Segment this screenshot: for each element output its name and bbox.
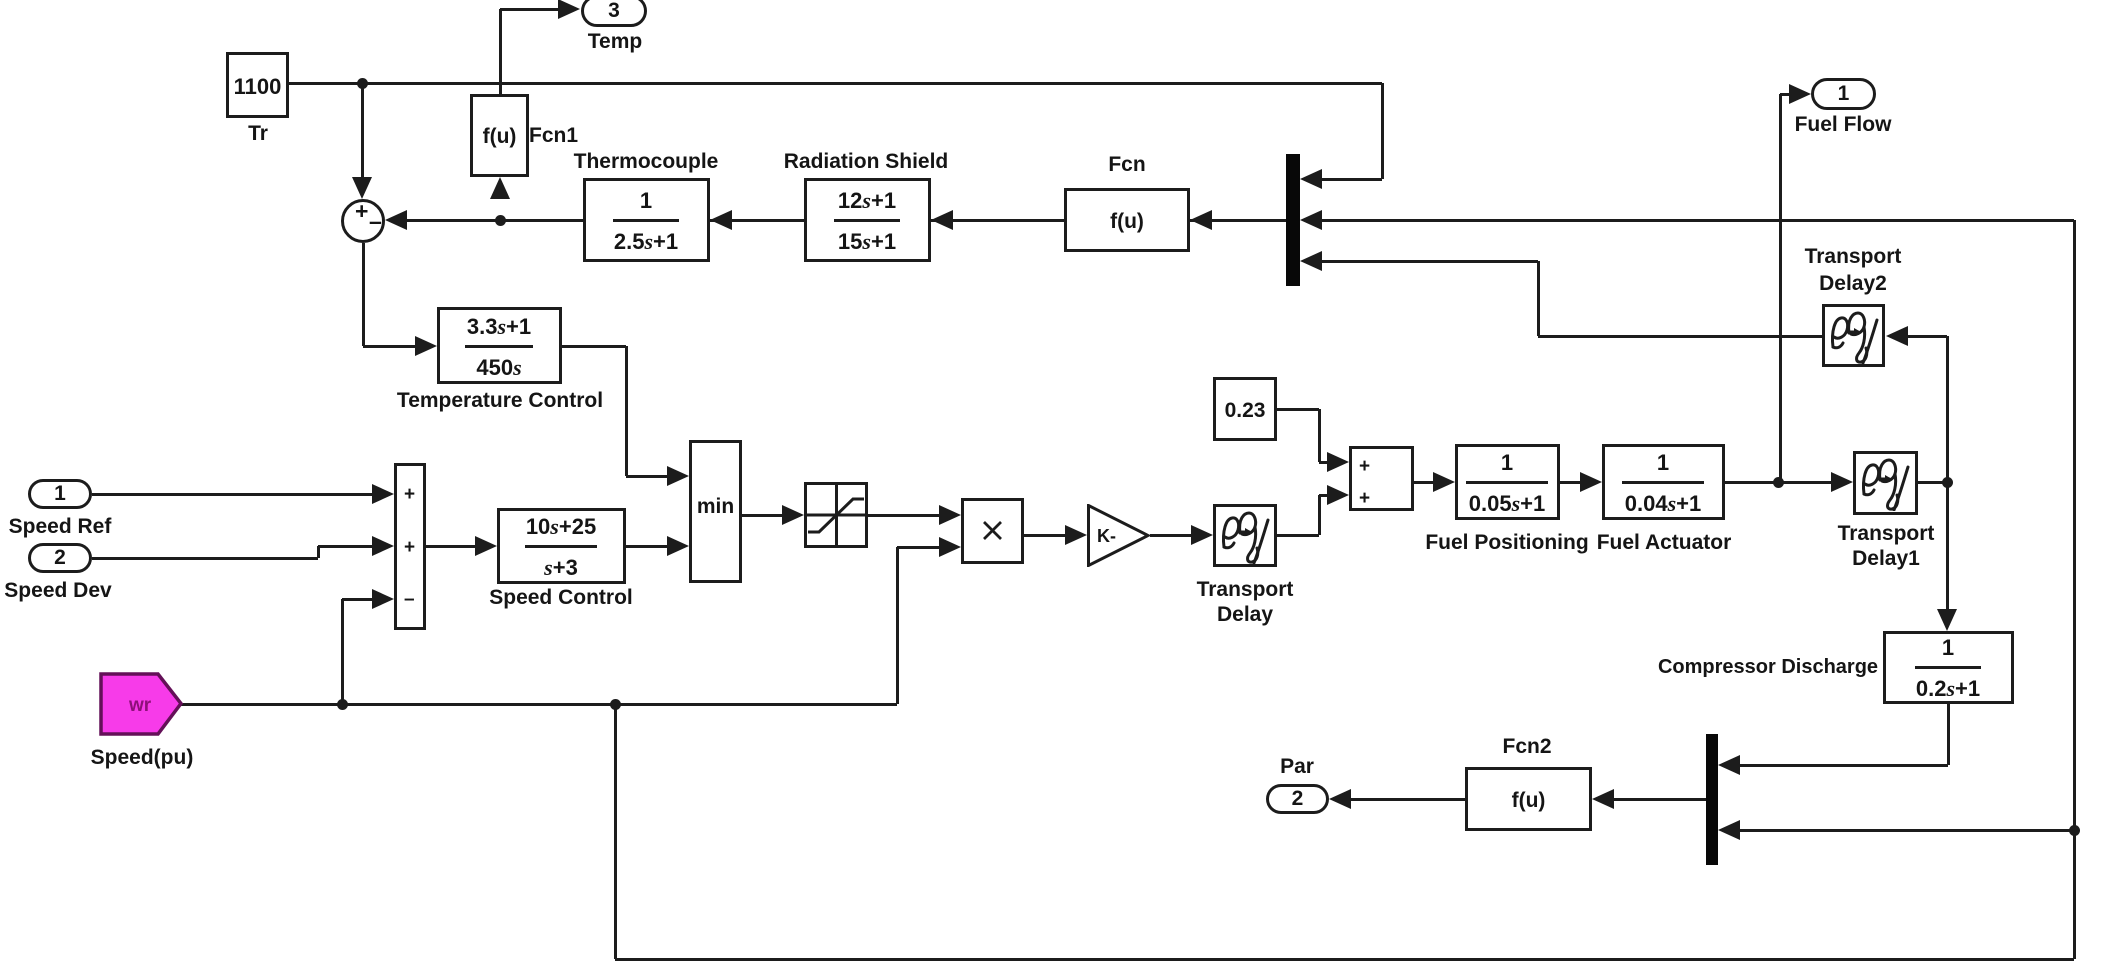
- svg-text:wr: wr: [128, 695, 152, 716]
- svg-text:K-: K-: [1097, 526, 1116, 546]
